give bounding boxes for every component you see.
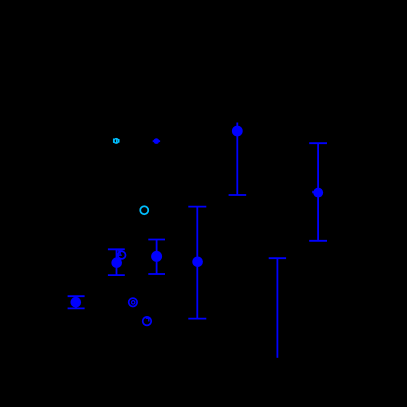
point D: blue dot with error bar, caps both ends, tiny x-cap left bbox=[309, 143, 327, 241]
point E: cyan open circle bbox=[140, 206, 148, 214]
point G: blue dot with error bar, caps both ends bbox=[148, 240, 165, 275]
point F2: blue open circle with tiny y-error bar bbox=[118, 251, 126, 259]
point J: blue dot with short error bar, caps both ends bbox=[68, 296, 85, 308]
point B: small blue filled dot with tiny x-error ticks bbox=[153, 138, 159, 144]
point F1: blue dot with error bar, caps both ends bbox=[108, 249, 125, 275]
point L: blue open circle with tiny y-error bar inside bbox=[143, 317, 152, 326]
point C: blue dot with error bar, cap at bottom only bbox=[229, 123, 247, 196]
bar I: long blue error bar with cap at top only bbox=[269, 258, 286, 358]
point K: blue open circle with small open circle inside bbox=[129, 298, 137, 306]
point H: blue dot with long error bar, caps both ends bbox=[188, 207, 206, 319]
point A: small cyan open circle with tiny error bar ticks bbox=[114, 139, 119, 144]
